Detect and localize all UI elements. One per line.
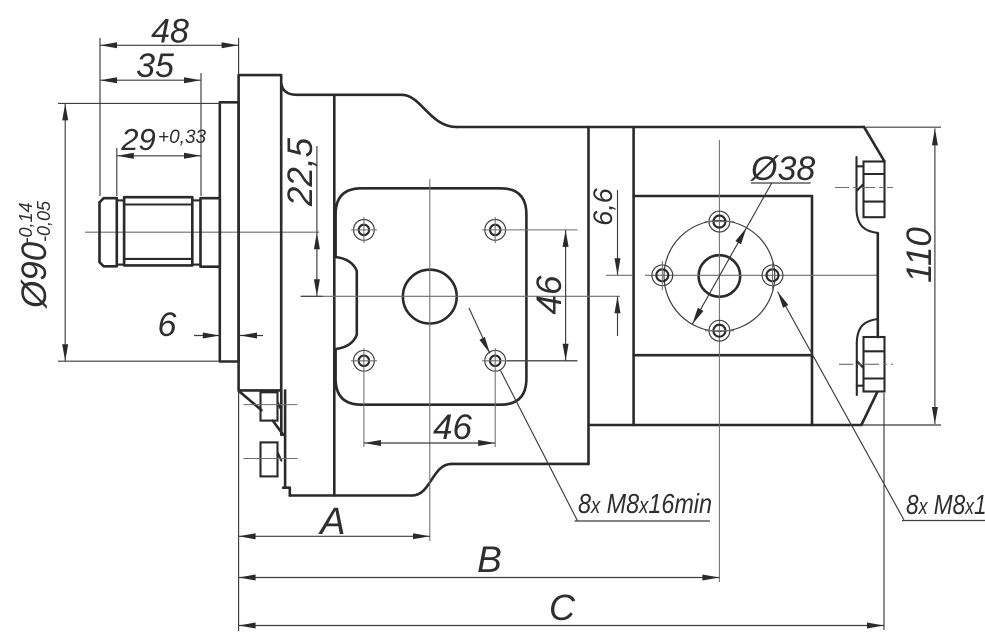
rear hole right [767, 269, 779, 281]
svg-text:C: C [549, 587, 576, 628]
right edge [876, 233, 879, 337]
bottom port pad plate [856, 343, 858, 395]
shaft centerline [85, 231, 319, 233]
svg-text:+0,33: +0,33 [158, 127, 207, 148]
bracket chamfer 1 [239, 391, 262, 410]
rear hole bottom [713, 325, 725, 337]
hex bolt 2 [261, 442, 278, 476]
svg-text:Ø90: Ø90 [15, 241, 54, 309]
shaft end cap [100, 198, 117, 266]
spline minor diameter lines [124, 203, 192, 205]
label 8xM8x16 right with leader [778, 292, 904, 520]
dimension 6 [194, 335, 220, 337]
mounting flange [239, 75, 282, 390]
shaft collar groove [117, 200, 124, 264]
svg-text:110: 110 [900, 227, 939, 283]
bottom port boss [864, 337, 885, 392]
dimension 46 right [565, 230, 567, 361]
svg-text:48: 48 [151, 13, 189, 51]
rear flange block [634, 195, 812, 198]
rear bolt circle [664, 221, 775, 332]
svg-text:-0,05: -0,05 [34, 200, 54, 242]
shaft neck groove [192, 200, 200, 264]
svg-text:29: 29 [120, 122, 155, 157]
svg-text:-0,14: -0,14 [16, 202, 36, 243]
spacer plate right edge [632, 127, 635, 425]
label phi38 with leader [692, 183, 772, 325]
top port pad plate [855, 157, 857, 209]
dimension phi90 [64, 103, 66, 361]
dimension 48 [100, 44, 239, 46]
svg-text:B: B [477, 539, 502, 580]
seal plate (phi90 pilot) [220, 102, 239, 361]
rear center hole [699, 255, 741, 297]
svg-text:46: 46 [530, 275, 569, 314]
bottom port fillet [857, 319, 878, 343]
rear bottom edge [589, 424, 862, 427]
shaft splined section [124, 197, 192, 265]
svg-text:22,5: 22,5 [281, 137, 320, 207]
bolt hole TL [359, 225, 369, 235]
dimension A [238, 390, 240, 631]
dimension 22,5 [316, 146, 318, 296]
shaft journal [201, 198, 220, 267]
bottom bracket plate [280, 390, 283, 434]
body top edge right [457, 126, 864, 129]
rear hole left [656, 269, 668, 281]
bottom port centerline [839, 363, 893, 365]
rear horizontal centerline [645, 274, 877, 276]
front body right edge [587, 127, 590, 464]
dimension 6,6 [617, 190, 619, 275]
top-right chamfer [864, 127, 885, 162]
bolt hole BL [359, 356, 369, 366]
svg-text:8x M8x16m: 8x M8x16m [906, 489, 985, 520]
top port fillet [857, 209, 878, 233]
body bottom edge left [290, 494, 412, 497]
front flange horizontal centerline [301, 295, 620, 297]
dimension 110 [934, 128, 936, 424]
hex bolt 1 centerline [244, 404, 298, 406]
dimension 29 +0,33 [117, 155, 201, 157]
rear hole top [713, 216, 725, 228]
label 8xM8x16min with leader [469, 308, 490, 354]
bottom step [283, 488, 290, 496]
body top fillet [281, 82, 297, 95]
bolt hole TR [490, 225, 500, 235]
dimension B [239, 577, 720, 579]
front flange vertical centerline [429, 179, 431, 541]
bracket chamfer 2 [273, 421, 283, 435]
top port boss [864, 162, 885, 218]
dimension 35 [100, 79, 201, 81]
svg-text:35: 35 [136, 47, 174, 85]
body bottom S-curve [412, 464, 452, 496]
top port centerline [835, 187, 893, 189]
bolt hole BR [490, 356, 500, 366]
svg-text:A: A [318, 501, 345, 543]
bottom-right chamfer [862, 393, 877, 425]
body bottom edge front-right [452, 463, 589, 466]
body top edge left [297, 94, 402, 97]
svg-text:8x M8x16min: 8x M8x16min [578, 488, 712, 519]
dimension 46 bottom [364, 442, 495, 444]
svg-text:6: 6 [158, 306, 177, 344]
hex bolt 1 [261, 392, 278, 420]
dimension C [239, 625, 884, 627]
body top S-curve [402, 95, 457, 127]
rear vertical centerline [718, 140, 720, 582]
svg-text:Ø38: Ø38 [750, 150, 815, 188]
mounting plate (rounded square) [336, 188, 527, 404]
front center hole [403, 270, 457, 324]
svg-text:46: 46 [433, 408, 472, 447]
hex bolt 2 centerline [244, 458, 298, 460]
front cover edge [333, 95, 336, 496]
svg-text:6,6: 6,6 [588, 187, 618, 226]
